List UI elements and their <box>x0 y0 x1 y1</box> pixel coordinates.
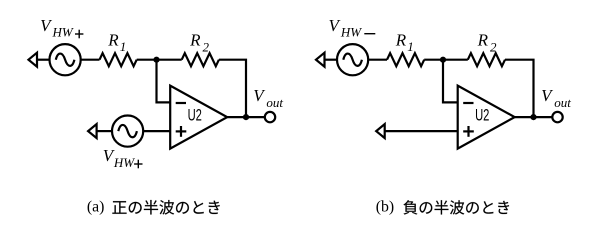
label V_HW+ (bottom) <box>103 146 143 170</box>
svg-text:2: 2 <box>203 40 210 55</box>
wire junction to inverting input <box>157 60 171 103</box>
wire <box>368 59 387 61</box>
op-amp non-inverting input marker + <box>463 126 474 137</box>
wire <box>37 59 50 61</box>
input terminal arrow (top source, circuit b) <box>316 53 325 67</box>
AC source V_HW- (top, circuit b) <box>337 44 368 75</box>
wire op-amp output <box>227 116 265 118</box>
wire <box>325 59 338 61</box>
input terminal arrow (non-inverting input, circuit b) <box>376 124 385 138</box>
svg-text:R: R <box>189 31 201 50</box>
node: output junction <box>243 114 249 120</box>
op-amp U2 (circuit b) <box>458 86 515 149</box>
svg-text:1: 1 <box>407 39 414 54</box>
resistor R2 (circuit a) <box>182 53 219 66</box>
wire <box>97 130 112 132</box>
circuit (b) <box>316 16 571 149</box>
wire feedback to output <box>505 60 534 117</box>
input terminal arrow (top source, circuit a) <box>29 53 38 67</box>
op-amp U2 (circuit a) <box>170 86 227 149</box>
svg-text:R: R <box>477 31 489 50</box>
node: inverting input junction (circuit b) <box>440 57 446 63</box>
wire <box>81 59 100 61</box>
wire arrow to non-inverting input <box>385 130 458 132</box>
svg-text:R: R <box>107 31 119 50</box>
input terminal arrow (bottom source) <box>88 124 97 138</box>
caption (a) <box>87 199 220 216</box>
label R1 <box>107 31 126 55</box>
wire junction to inverting input <box>443 60 458 103</box>
svg-text:U2: U2 <box>475 106 489 124</box>
svg-text:1: 1 <box>120 39 127 54</box>
resistor R1 (circuit b) <box>387 53 424 66</box>
label R1 <box>395 31 414 55</box>
label V_out <box>541 86 571 110</box>
AC source V_HW+ (top, circuit a) <box>50 44 81 75</box>
wire <box>137 59 182 61</box>
caption (b) <box>376 199 509 216</box>
svg-text:R: R <box>395 31 407 50</box>
wire <box>424 59 468 61</box>
AC source V_HW+ (bottom) <box>112 116 143 147</box>
svg-text:out: out <box>554 95 571 110</box>
svg-text:HW: HW <box>113 155 135 170</box>
node: inverting input junction (circuit a) <box>153 57 159 63</box>
svg-text:2: 2 <box>490 40 497 55</box>
label R2 <box>189 31 209 55</box>
circuit (a) <box>29 16 284 170</box>
op-amp inverting input marker - <box>463 102 473 104</box>
label U2 <box>188 106 202 124</box>
svg-text:(a): (a) <box>87 199 105 216</box>
output terminal (open circle) <box>552 112 562 122</box>
wire feedback to output <box>219 60 246 117</box>
svg-text:HW: HW <box>340 25 362 40</box>
wire op-amp output <box>515 116 553 118</box>
output terminal (open circle) <box>265 112 275 122</box>
resistor R1 (circuit a) <box>100 53 137 66</box>
svg-text:U2: U2 <box>188 106 202 124</box>
label V_HW- (top) <box>329 16 376 40</box>
label U2 <box>475 106 489 124</box>
wire source to non-inverting input <box>143 130 170 132</box>
op-amp non-inverting input marker + <box>176 126 187 137</box>
node: output junction <box>530 114 536 120</box>
svg-text:HW: HW <box>52 25 74 40</box>
svg-text:out: out <box>266 95 283 110</box>
label V_out <box>253 86 283 110</box>
resistor R2 (circuit b) <box>468 53 505 66</box>
label V_HW+ (top) <box>40 16 83 40</box>
op-amp inverting input marker - <box>176 102 186 104</box>
label R2 <box>477 31 497 55</box>
svg-text:(b): (b) <box>376 199 394 216</box>
